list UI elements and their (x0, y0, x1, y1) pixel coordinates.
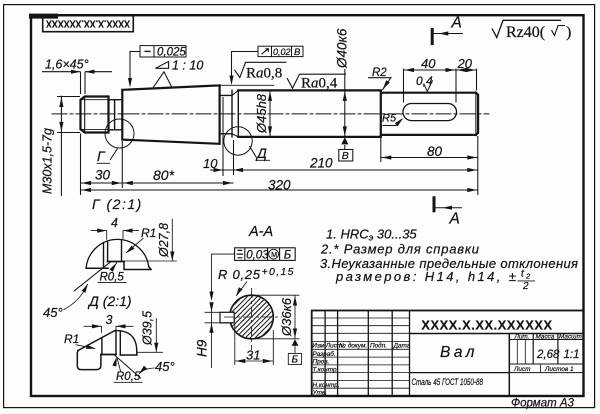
svg-text:Ø27,8: Ø27,8 (157, 223, 171, 258)
svg-text:R0,5: R0,5 (116, 371, 141, 383)
svg-text:Формат А3: Формат А3 (511, 398, 575, 410)
svg-text:XXXX.X.XX.XXXXXX: XXXX.X.XX.XXXXXX (421, 318, 552, 333)
svg-text:10: 10 (203, 156, 218, 171)
svg-text:Ø40к6: Ø40к6 (335, 28, 350, 69)
svg-text:Ø36к6: Ø36к6 (279, 297, 294, 337)
svg-text:Разраб.: Разраб. (313, 350, 336, 358)
svg-text:1,6×45°: 1,6×45° (45, 57, 89, 71)
svg-text:Изм: Изм (312, 343, 324, 350)
svg-text:Утв.: Утв. (312, 390, 328, 397)
svg-text:Вал: Вал (440, 344, 478, 361)
svg-text:M30x1,5-7g: M30x1,5-7g (41, 128, 55, 194)
svg-text:0,02: 0,02 (273, 47, 291, 57)
svg-text:M: M (271, 250, 277, 259)
svg-text:Лист: Лист (513, 366, 531, 373)
svg-text:Н.контр.: Н.контр. (313, 382, 340, 389)
svg-text:Листов 1: Листов 1 (544, 366, 574, 373)
svg-text:Б: Б (292, 355, 299, 366)
svg-text:Подп.: Подп. (370, 342, 387, 350)
svg-text:А: А (449, 211, 460, 228)
svg-text:Сталь 45 ГОСТ 1050-88: Сталь 45 ГОСТ 1050-88 (412, 377, 484, 388)
svg-text:210: 210 (309, 156, 333, 171)
svg-text:30: 30 (95, 168, 111, 183)
svg-text:Масшт.: Масшт. (559, 333, 583, 340)
svg-text:XXXX.X.XX.XXXXXX: XXXX.X.XX.XXXXXX (46, 17, 130, 28)
svg-text:31: 31 (246, 348, 260, 363)
svg-text:1 : 10: 1 : 10 (172, 59, 203, 73)
svg-text:Ra0,4: Ra0,4 (301, 76, 338, 92)
svg-text:2,68: 2,68 (536, 349, 560, 361)
svg-text:4: 4 (111, 216, 118, 230)
svg-text:40: 40 (421, 56, 436, 71)
svg-text:20: 20 (457, 56, 473, 71)
svg-text:Г (2:1): Г (2:1) (92, 196, 143, 212)
svg-text:0,4: 0,4 (416, 74, 433, 88)
svg-text:Б: Б (284, 249, 292, 261)
svg-text:А-А: А-А (248, 224, 273, 240)
svg-text:0,03: 0,03 (246, 249, 269, 261)
svg-text:Лит.: Лит. (514, 333, 530, 340)
svg-text:R 0,25: R 0,25 (218, 267, 261, 282)
svg-text:А: А (451, 15, 462, 32)
svg-text:Пров.: Пров. (313, 359, 330, 366)
svg-text:Д (2:1): Д (2:1) (87, 293, 132, 309)
svg-text:В: В (294, 47, 301, 58)
svg-text:Ø45h8: Ø45h8 (254, 93, 269, 134)
svg-text:0,025: 0,025 (157, 47, 186, 59)
svg-text:45°: 45° (155, 359, 175, 374)
svg-text:Н9: Н9 (195, 339, 210, 357)
svg-text:R1: R1 (64, 332, 79, 346)
svg-text:2: 2 (522, 281, 529, 292)
svg-text:R0,5: R0,5 (100, 272, 125, 284)
svg-text:): ) (566, 24, 571, 41)
svg-text:R1: R1 (141, 226, 156, 240)
svg-text:Дата: Дата (393, 343, 411, 350)
svg-text:2.* Размер для справки: 2.* Размер для справки (320, 241, 479, 256)
svg-text:Rz40(: Rz40( (506, 24, 545, 41)
svg-text:Масса: Масса (536, 333, 555, 340)
svg-text:1:1: 1:1 (564, 349, 580, 361)
svg-text:+0,15: +0,15 (262, 266, 294, 278)
svg-text:Ø39,5: Ø39,5 (141, 311, 155, 346)
svg-text:R2: R2 (372, 67, 387, 79)
svg-text:320: 320 (268, 178, 291, 193)
svg-text:№ докум.: № докум. (339, 342, 367, 350)
svg-text:В: В (342, 150, 349, 162)
svg-text:Т.контр.: Т.контр. (313, 366, 339, 373)
svg-text:3: 3 (106, 313, 113, 327)
svg-text:R5: R5 (382, 113, 397, 125)
svg-text:45°: 45° (43, 305, 63, 320)
svg-text:80: 80 (427, 144, 443, 159)
svg-text:Д: Д (255, 145, 267, 161)
svg-text:2: 2 (525, 272, 531, 281)
svg-text:Ra0,8: Ra0,8 (246, 65, 282, 81)
svg-text:80*: 80* (153, 167, 175, 183)
